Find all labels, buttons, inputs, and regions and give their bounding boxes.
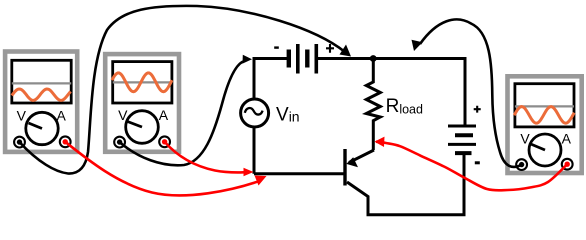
transistor Q1 base bar [343,149,346,186]
svg-text:Rload: Rload [386,96,423,117]
resistor Rload [366,59,380,151]
battery V1 minus label [274,46,279,48]
svg-text:Vin: Vin [276,105,300,126]
meter M1 screen [12,60,71,103]
wire: battery V1 to top right corner [316,59,465,127]
lead: M1 red probe to base wire [65,142,266,196]
meter M3 screen [515,84,574,127]
svg-text:V: V [118,107,128,123]
svg-text:V: V [520,130,530,146]
lead: M1 black probe arc to node [20,6,352,174]
wire: Vin bottom riser [253,126,256,174]
meter M2 dial [126,111,159,144]
meter M3 waveform [514,107,574,124]
meter M2 body [105,54,179,152]
meter M2 black terminal [114,137,125,148]
meter M2 waveform [112,73,172,92]
battery V2 minus label [475,161,480,164]
transistor Q1 emitter lead with arrow [346,150,374,167]
AC source Vin [241,99,269,127]
svg-text:A: A [159,107,169,123]
meter M3 black terminal [516,159,527,170]
battery V2 plus label [474,106,481,113]
wire: top left segment Vin to battery V1 [254,59,289,101]
lead: M2 red probe to corner node [165,142,254,176]
meter M1 black terminal [14,137,25,148]
meter M1 red terminal [60,136,71,147]
meter M1 body [5,52,77,152]
meter M2 red terminal [159,136,170,147]
meter M1 dial [26,112,58,144]
lead: M3 red probe to emitter riser [375,137,568,191]
meter M2 screen zero line [113,81,172,83]
battery V1 plus label [326,44,334,53]
meter M2 screen [113,62,172,103]
lead: M2 black probe to node A corner [120,55,252,165]
meter M3 red terminal [562,159,573,170]
meter M3 body [508,76,582,173]
meter M3 screen zero line [515,105,574,107]
svg-text:A: A [57,107,67,123]
battery V2 [448,126,476,153]
svg-text:V: V [17,107,27,123]
meter M1 waveform [12,89,71,100]
wire: base wire [254,172,344,175]
transistor Q1 collector lead and bottom wire to battery V2 [347,153,464,215]
meter M3 dial [529,134,561,166]
battery V1 [289,44,317,74]
node junction dot [370,55,377,62]
lead: M3 black probe to top wire [412,19,522,166]
meter M1 screen zero line [12,82,71,84]
svg-text:A: A [562,130,572,146]
